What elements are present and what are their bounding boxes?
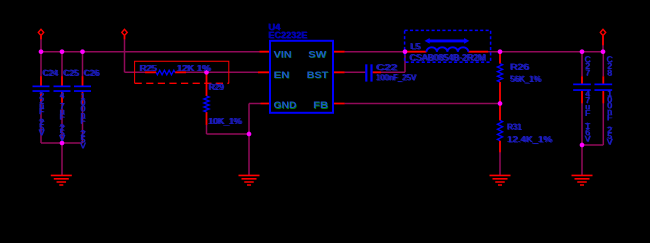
svg-text:C24: C24 (42, 68, 58, 78)
svg-text:R25: R25 (139, 63, 156, 73)
svg-text:BST: BST (307, 70, 329, 80)
svg-text:V: V (59, 133, 65, 143)
svg-text:EC2232E: EC2232E (268, 30, 307, 40)
svg-text:V: V (584, 134, 590, 144)
svg-text:8: 8 (607, 67, 612, 77)
svg-text:R29: R29 (208, 82, 223, 92)
svg-text:V: V (606, 137, 612, 147)
svg-text:GND: GND (274, 100, 298, 110)
svg-text:C25: C25 (63, 68, 79, 78)
svg-text:VIN: VIN (274, 49, 292, 59)
svg-text:R31: R31 (507, 121, 522, 131)
svg-text:V: V (38, 127, 44, 137)
svg-text:V: V (80, 140, 86, 150)
svg-text:12.4K_1%: 12.4K_1% (507, 134, 553, 144)
svg-text:10K_1%: 10K_1% (208, 116, 242, 126)
svg-text:R26: R26 (510, 62, 529, 72)
svg-text:12K 1%: 12K 1% (176, 63, 211, 73)
svg-text:56K_1%: 56K_1% (510, 74, 542, 84)
svg-text:C22: C22 (376, 62, 397, 72)
svg-text:CSAB0854B-2R2M: CSAB0854B-2R2M (409, 52, 485, 62)
svg-text:7: 7 (585, 67, 590, 77)
svg-text:FB: FB (313, 100, 329, 110)
svg-text:SW: SW (308, 49, 327, 59)
svg-text:100nF_25V: 100nF_25V (376, 72, 416, 82)
svg-text:C26: C26 (83, 68, 99, 78)
svg-text:L5: L5 (410, 41, 420, 51)
svg-text:EN: EN (274, 70, 290, 80)
